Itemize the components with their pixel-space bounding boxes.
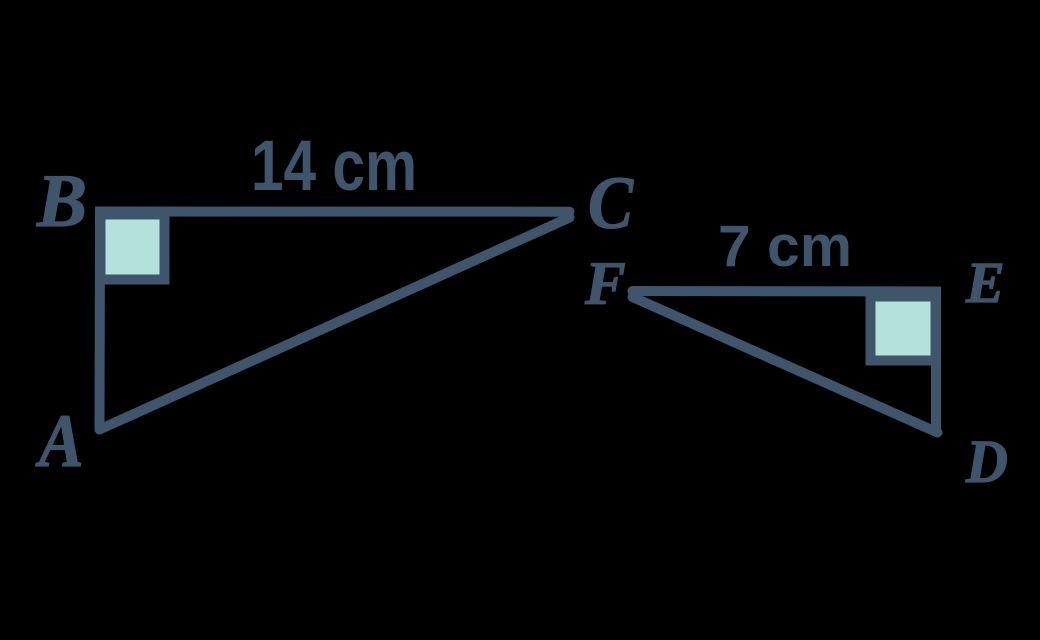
svg-text:A: A [35,401,83,483]
svg-text:C: C [588,162,634,245]
svg-text:E: E [965,250,1005,315]
svg-text:7 cm: 7 cm [718,214,852,279]
right angle marker at E [871,297,936,361]
svg-text:D: D [965,428,1008,496]
triangle ABC side AC [100,218,570,430]
right angle marker at B [101,215,165,280]
svg-text:14 cm: 14 cm [251,127,417,206]
triangle DEF side FD [633,297,938,433]
svg-text:F: F [584,251,626,318]
svg-text:B: B [36,160,87,243]
triangle ABC sides AB and BC [100,212,570,430]
triangle DEF sides FE and ED [633,291,937,432]
